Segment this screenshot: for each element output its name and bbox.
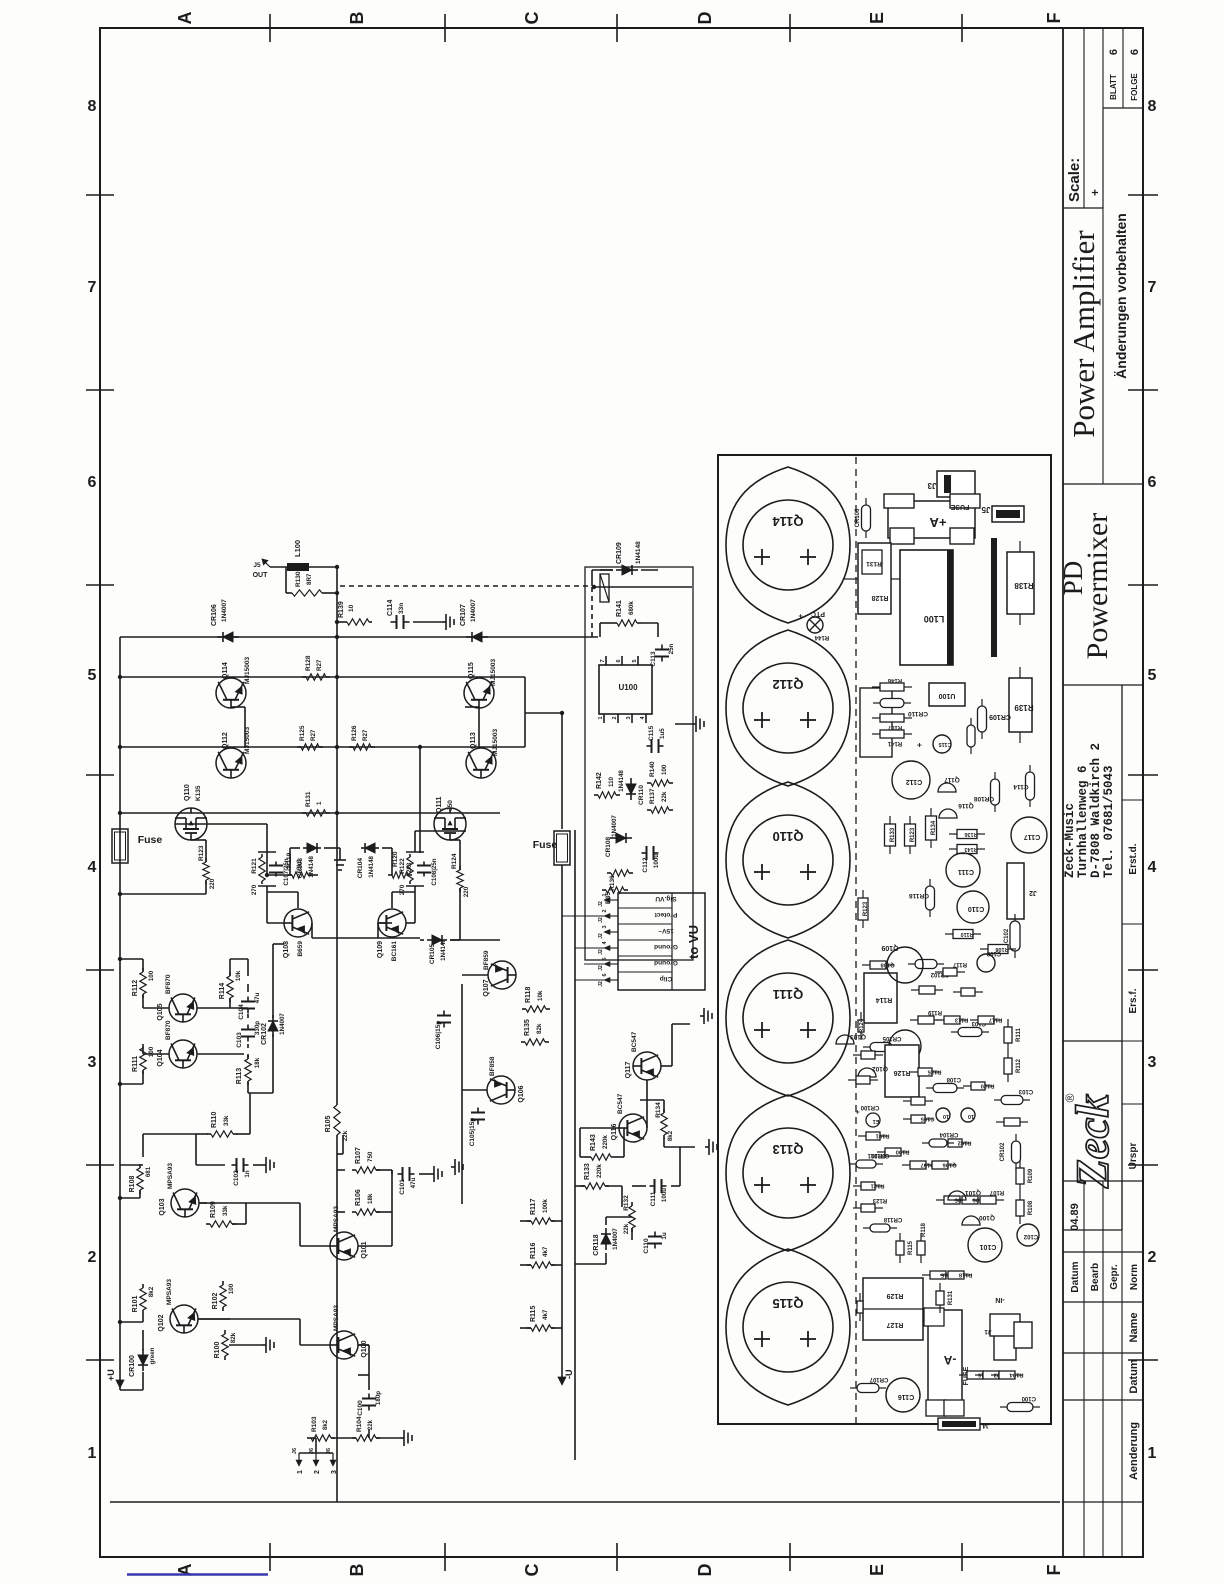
svg-text:22k: 22k <box>623 1223 630 1234</box>
svg-text:J2: J2 <box>598 901 604 907</box>
svg-text:1N4148: 1N4148 <box>440 939 447 961</box>
diode CR102 1N4007 <box>272 1031 274 1037</box>
PCB resistor R146 <box>872 686 880 688</box>
svg-text:Q116: Q116 <box>611 1124 618 1141</box>
clip stage wires <box>646 1080 648 1128</box>
PCB resistor C105 <box>903 1118 911 1120</box>
feedback/output rail <box>336 1135 338 1502</box>
svg-text:R125: R125 <box>927 1069 942 1075</box>
R102 100 <box>222 1307 224 1311</box>
svg-text:Tel. 07681/5043: Tel. 07681/5043 <box>1102 765 1116 878</box>
svg-text:K135: K135 <box>195 785 202 801</box>
svg-text:C: C <box>522 12 542 25</box>
svg-text:C116: C116 <box>898 1393 914 1400</box>
svg-text:A: A <box>175 12 195 25</box>
svg-text:B659: B659 <box>297 941 304 957</box>
PCB sub box <box>860 688 892 757</box>
svg-text:100k: 100k <box>542 1199 549 1213</box>
svg-text:7: 7 <box>1148 279 1157 296</box>
svg-text:J50: J50 <box>447 800 454 811</box>
svg-text:220k: 220k <box>602 1135 609 1149</box>
svg-text:7: 7 <box>88 279 97 296</box>
svg-text:D-7808 Waldkirch 2: D-7808 Waldkirch 2 <box>1089 743 1103 878</box>
svg-text:Q103: Q103 <box>850 1033 866 1040</box>
R100 82k + ground <box>224 1356 226 1360</box>
R117 100k <box>527 1220 531 1222</box>
svg-text:J5: J5 <box>981 505 990 514</box>
ground clip <box>700 1015 704 1017</box>
svg-text:R107: R107 <box>887 724 902 730</box>
svg-text:CR104: CR104 <box>939 1131 958 1137</box>
MOSFET Q110 K135 <box>175 808 207 840</box>
power transistor Q115 MJ15003 <box>464 678 494 708</box>
PCB cap C115 <box>933 735 951 753</box>
svg-text:F: F <box>1044 1565 1064 1576</box>
svg-text:MJ15003: MJ15003 <box>244 657 251 684</box>
svg-text:Turnhallenweg 6: Turnhallenweg 6 <box>1076 765 1090 878</box>
svg-text:6: 6 <box>1129 49 1141 55</box>
PCB resistor R123 <box>909 846 911 854</box>
PCB diode/cap CR108 <box>994 805 996 812</box>
svg-text:C101: C101 <box>980 1243 997 1250</box>
PCB diode/cap CR101 <box>849 1163 856 1165</box>
PCB diode/cap R143c <box>970 747 972 754</box>
PCB resistor R102 <box>940 1142 948 1144</box>
svg-text:CR107: CR107 <box>460 604 467 626</box>
R132 22k <box>631 1228 633 1232</box>
PCB diode/cap CR102 <box>1015 1163 1017 1170</box>
svg-text:R131: R131 <box>948 1290 954 1305</box>
svg-text:R112: R112 <box>132 980 139 996</box>
svg-text:Scale:: Scale: <box>1066 158 1083 202</box>
svg-text:R132: R132 <box>623 1195 630 1211</box>
svg-text:8: 8 <box>88 98 97 115</box>
PCB power transistor Q112 <box>726 630 850 786</box>
PCB cap C104 <box>889 1030 921 1062</box>
PCB J2 <box>1007 863 1024 919</box>
PD Powermixer cell <box>1063 483 1143 485</box>
R141 680k <box>613 622 617 624</box>
svg-text:R125: R125 <box>299 725 306 741</box>
svg-text:J3: J3 <box>927 481 936 490</box>
svg-text:R124: R124 <box>859 1018 865 1033</box>
svg-text:R144: R144 <box>814 634 829 640</box>
U100 IC <box>599 665 652 714</box>
svg-text:C112: C112 <box>906 778 922 785</box>
svg-text:CR108: CR108 <box>605 836 612 857</box>
svg-text:FUSE: FUSE <box>950 503 969 510</box>
svg-text:6: 6 <box>1148 474 1157 491</box>
svg-text:J2: J2 <box>598 933 604 939</box>
svg-text:R131: R131 <box>866 560 882 567</box>
svg-text:C110: C110 <box>643 1238 650 1254</box>
PCB fuse holder +A <box>888 501 975 538</box>
svg-text:C104: C104 <box>238 1004 245 1020</box>
svg-text:Q103: Q103 <box>159 1198 166 1215</box>
svg-text:C115: C115 <box>939 741 952 747</box>
svg-text:MPSA93: MPSA93 <box>333 1305 340 1331</box>
svg-text:J2: J2 <box>598 981 604 987</box>
second stage Q106 BF858 <box>487 1076 515 1104</box>
PCB resistor R125 <box>910 1071 918 1073</box>
svg-text:CR108: CR108 <box>973 795 994 802</box>
svg-text:1N4007: 1N4007 <box>612 1228 619 1250</box>
svg-text:C114: C114 <box>387 600 394 616</box>
PCB diode/cap CR118b <box>863 1227 870 1229</box>
PCB resistor R124 <box>860 1032 862 1040</box>
svg-text:4: 4 <box>1148 859 1157 876</box>
input connector pins 1 2 3 <box>298 1453 300 1466</box>
svg-text:MPSA93: MPSA93 <box>167 1163 174 1189</box>
bias rail wires <box>419 747 421 853</box>
PCB diode/cap C114 <box>1029 800 1031 807</box>
svg-text:CR107: CR107 <box>869 1376 888 1382</box>
Q108 collector wires <box>267 922 284 924</box>
svg-text:R27: R27 <box>362 729 369 741</box>
svg-text:BF859: BF859 <box>483 950 490 970</box>
svg-text:R124: R124 <box>451 853 458 869</box>
svg-text:C108|25n: C108|25n <box>431 858 438 885</box>
svg-text:MJ15003: MJ15003 <box>492 729 499 756</box>
revision table <box>1063 1501 1143 1503</box>
svg-text:Q111: Q111 <box>773 987 803 1002</box>
svg-text:1N4007: 1N4007 <box>611 815 618 837</box>
svg-text:3: 3 <box>331 1470 338 1474</box>
resistor R111 100 <box>142 1070 144 1074</box>
svg-text:6: 6 <box>602 973 608 976</box>
svg-text:R117: R117 <box>989 1017 1003 1023</box>
svg-text:Zeck-Music: Zeck-Music <box>1063 803 1077 878</box>
svg-text:R139: R139 <box>1014 703 1034 712</box>
svg-text:R136: R136 <box>964 831 977 837</box>
connector pins J2 <box>608 979 618 981</box>
svg-text:C102: C102 <box>233 1170 240 1186</box>
svg-text:J2: J2 <box>598 949 604 955</box>
svg-text:Q109: Q109 <box>881 944 898 951</box>
svg-text:CR101: CR101 <box>870 1152 889 1158</box>
PCB resistor R113 <box>936 1019 944 1021</box>
PCB resistor R118b <box>920 1255 922 1263</box>
svg-text:Erst.d.: Erst.d. <box>1128 843 1139 874</box>
PCB resistor R117b <box>935 971 943 973</box>
bias resistor R114 10k <box>229 998 231 1002</box>
R143 220k <box>587 1156 591 1158</box>
svg-text:6: 6 <box>88 474 97 491</box>
PCB resistor R131b <box>939 1305 941 1313</box>
svg-text:D: D <box>695 1564 715 1577</box>
svg-text:R114: R114 <box>876 996 892 1003</box>
svg-text:R111: R111 <box>1016 1027 1022 1041</box>
dashed sense line <box>340 585 592 587</box>
svg-text:BF858: BF858 <box>489 1056 496 1076</box>
svg-text:180p: 180p <box>375 1391 382 1405</box>
MOSFET column R131 <box>120 812 337 814</box>
svg-text:Zeck: Zeck <box>1067 1094 1119 1189</box>
bias cap C103 330p <box>247 1037 249 1042</box>
svg-text:CR102: CR102 <box>261 1023 268 1045</box>
svg-text:8: 8 <box>1148 98 1157 115</box>
source resistor R131 1 <box>302 812 306 814</box>
diode CR105 1N4148 <box>427 939 432 941</box>
svg-text:R121: R121 <box>251 858 258 874</box>
svg-text:CR104: CR104 <box>357 858 364 879</box>
PCB connector J3 <box>937 471 975 497</box>
svg-text:C102: C102 <box>1023 1233 1038 1239</box>
svg-text:Q117: Q117 <box>625 1062 632 1079</box>
svg-text:CR100: CR100 <box>860 1104 879 1110</box>
lower rail tie to -U <box>500 746 525 748</box>
svg-text:Q106: Q106 <box>518 1085 525 1102</box>
Q102 MPSA93 <box>170 1305 198 1333</box>
svg-text:BF870: BF870 <box>165 1020 172 1040</box>
svg-text:R137: R137 <box>649 788 656 804</box>
PCB resistor R115b <box>899 1255 901 1263</box>
svg-text:R118: R118 <box>525 987 532 1003</box>
PCB cap C110 <box>957 891 989 923</box>
ground C102 <box>262 1164 266 1166</box>
svg-text:4k7: 4k7 <box>542 1246 549 1257</box>
svg-text:100u: 100u <box>653 854 660 868</box>
svg-text:Urspr: Urspr <box>1128 1143 1139 1170</box>
svg-text:R146: R146 <box>887 677 902 683</box>
svg-text:Q105: Q105 <box>157 1003 164 1020</box>
ground input <box>400 1437 404 1439</box>
PCB cap C109 <box>977 954 995 972</box>
PCB cap C117 <box>1011 817 1047 853</box>
PCB dashed separator <box>855 455 857 1424</box>
svg-text:E1: E1 <box>873 1118 880 1124</box>
emitter resistor R126 R27 <box>349 746 353 748</box>
VAS R110 33k <box>207 1133 211 1135</box>
svg-text:R140: R140 <box>649 761 656 777</box>
svg-text:100: 100 <box>661 764 668 775</box>
PCB resistor R100 <box>877 1151 885 1153</box>
C106 15p <box>443 1023 445 1028</box>
svg-text:BC161: BC161 <box>391 941 398 962</box>
R115 4k7 <box>527 1327 531 1329</box>
svg-text:R27: R27 <box>316 659 323 671</box>
fuse lower <box>554 831 570 865</box>
diode CR104 1N4148 <box>361 847 365 849</box>
svg-text:82k: 82k <box>230 1332 237 1343</box>
svg-text:J1: J1 <box>984 1328 992 1335</box>
svg-text:1: 1 <box>88 1445 97 1462</box>
svg-text:6: 6 <box>616 659 622 662</box>
Aenderungen vorbehalten cell <box>1102 28 1104 484</box>
PCB diode/cap CR105 <box>863 1046 870 1048</box>
CR108 1N4007 <box>610 837 616 839</box>
ground bias <box>324 847 340 849</box>
PCB resistor R109b <box>1019 1184 1021 1192</box>
PCB cap 10 <box>961 1108 975 1122</box>
PCB diode/cap CR107 <box>850 1387 857 1389</box>
ruler zone numbers top edge <box>86 1359 114 1361</box>
svg-text:®: ® <box>1063 1093 1077 1102</box>
svg-text:Q100: Q100 <box>979 1214 995 1221</box>
C102 1n to ground <box>232 1164 237 1166</box>
svg-text:10: 10 <box>968 1113 974 1119</box>
svg-text:681: 681 <box>145 1166 152 1177</box>
svg-text:10k: 10k <box>235 970 242 981</box>
PCB J1 cluster <box>994 1334 1016 1360</box>
R109 33k <box>206 1223 210 1225</box>
svg-text:-A: -A <box>943 1353 956 1367</box>
CR118 1N4007 <box>605 1244 607 1250</box>
svg-text:220: 220 <box>463 886 470 897</box>
svg-text:R102: R102 <box>212 1293 219 1310</box>
svg-text:R115: R115 <box>908 1240 914 1255</box>
PCB resistor R105 <box>936 1199 944 1201</box>
R136 <box>607 872 611 874</box>
PCB diode/cap CR102 <box>908 963 915 965</box>
svg-text:100: 100 <box>228 1283 235 1294</box>
inner margin line <box>110 1501 1060 1503</box>
svg-text:R100: R100 <box>896 1149 910 1155</box>
svg-text:CR106: CR106 <box>855 508 861 527</box>
svg-text:R134: R134 <box>655 1102 662 1118</box>
svg-text:R111: R111 <box>132 1056 139 1072</box>
PCB cap C112 <box>892 761 930 799</box>
PCB resistor R107b <box>972 1199 980 1201</box>
bias cluster R121 C107 <box>258 885 276 887</box>
svg-text:Q113: Q113 <box>772 1142 803 1157</box>
svg-text:R123: R123 <box>872 1197 887 1203</box>
R105 22k feedback <box>336 1134 338 1136</box>
svg-text:220: 220 <box>209 878 216 889</box>
svg-text:L100: L100 <box>293 540 302 557</box>
svg-text:04.89: 04.89 <box>1069 1203 1081 1231</box>
svg-text:Ground: Ground <box>654 943 678 950</box>
PCB diode/cap C103b <box>994 1099 1001 1101</box>
PCB resistor R118 <box>940 1274 948 1276</box>
R108 681 <box>139 1190 141 1194</box>
svg-text:C106|15p: C106|15p <box>435 1021 442 1050</box>
R137 22k <box>647 809 651 811</box>
svg-text:R108: R108 <box>1028 1200 1034 1215</box>
svg-text:R126: R126 <box>894 1069 911 1076</box>
ground left <box>451 1166 455 1168</box>
PCB power transistor Q113 <box>726 1095 850 1251</box>
PCB diode/cap CR110 <box>873 702 880 704</box>
svg-text:R123: R123 <box>910 827 916 842</box>
svg-text:Fuse: Fuse <box>138 834 163 846</box>
svg-text:CR118: CR118 <box>883 1216 902 1222</box>
PCB cap C102b <box>1017 1224 1039 1246</box>
svg-text:3: 3 <box>626 716 632 719</box>
PCB resistor C107b <box>853 1054 861 1056</box>
svg-text:1: 1 <box>598 716 604 719</box>
rail +U top L-shaped <box>119 637 121 1390</box>
svg-text:CR110: CR110 <box>908 710 928 717</box>
bias cluster R122 C108 <box>406 885 424 887</box>
svg-text:Gepr.: Gepr. <box>1109 1264 1120 1290</box>
svg-text:15V~: 15V~ <box>658 927 674 934</box>
svg-text:R112: R112 <box>1016 1058 1022 1073</box>
PCB diode/cap C102 <box>1014 951 1016 958</box>
input pair Q103 MPSA93 <box>171 1189 199 1217</box>
svg-text:C110: C110 <box>968 905 984 912</box>
svg-text:4: 4 <box>88 859 97 876</box>
svg-text:47u: 47u <box>410 1177 417 1188</box>
PCB diode/cap CR104 <box>922 1142 929 1144</box>
svg-text:E: E <box>867 12 887 24</box>
svg-text:22k: 22k <box>368 1419 374 1430</box>
PCB resistor R123d <box>862 920 864 928</box>
svg-text:R103: R103 <box>311 1416 318 1432</box>
svg-text:R127: R127 <box>887 1321 904 1328</box>
svg-text:R110: R110 <box>961 931 974 937</box>
svg-text:5: 5 <box>1148 667 1157 684</box>
svg-text:Q102: Q102 <box>158 1314 165 1331</box>
bottom row cells Urspr Ers.f. Erst.d. <box>1121 685 1123 1230</box>
svg-text:Q110: Q110 <box>184 784 191 801</box>
C115 1u5 <box>647 745 652 747</box>
PCB diode/cap CR118 <box>929 910 931 917</box>
diode CR106 1N4007 <box>217 636 223 638</box>
svg-text:680k: 680k <box>628 601 635 615</box>
gate resistor R123 220 <box>205 880 207 884</box>
PCB power transistor Q111 <box>726 940 850 1096</box>
svg-text:C117: C117 <box>1024 833 1040 840</box>
bias resistor R113 18k <box>247 1081 249 1085</box>
svg-text:U100: U100 <box>618 683 638 692</box>
R116 4k7 <box>527 1264 531 1266</box>
blue pen mark near lower left corner <box>127 1573 268 1576</box>
OUT terminal J5 <box>262 559 270 567</box>
PCB Q102 Q103 D shapes <box>858 1068 876 1077</box>
svg-text:E: E <box>867 1564 887 1576</box>
MOSFET Q111 J50 <box>434 808 466 840</box>
svg-text:R109: R109 <box>1028 1168 1034 1183</box>
svg-text:Ground: Ground <box>654 959 678 966</box>
svg-text:1N4148: 1N4148 <box>308 855 315 877</box>
svg-text:Datum: Datum <box>1128 1359 1140 1393</box>
svg-text:R106: R106 <box>355 1189 362 1206</box>
C105 15p <box>477 1120 479 1125</box>
PCB resistor R112b <box>1007 1074 1009 1082</box>
svg-text:1n: 1n <box>244 1170 251 1177</box>
PCB resistor R101 <box>858 1135 866 1137</box>
svg-text:FOLGE: FOLGE <box>1130 73 1139 101</box>
svg-text:U100: U100 <box>939 692 956 699</box>
svg-text:1: 1 <box>1148 1445 1157 1462</box>
svg-text:Q111: Q111 <box>436 797 443 813</box>
emitter resistor R125 R27 <box>297 746 301 748</box>
svg-text:3: 3 <box>1148 1054 1157 1071</box>
svg-text:10: 10 <box>348 604 355 612</box>
svg-text:Fuse: Fuse <box>533 839 558 851</box>
svg-text:Q107: Q107 <box>483 979 490 996</box>
C112 100u <box>642 852 647 854</box>
PCB R138 <box>1007 552 1034 614</box>
svg-text:R118: R118 <box>958 1272 972 1278</box>
svg-text:C105: C105 <box>920 1116 935 1122</box>
svg-text:+: + <box>1088 189 1102 196</box>
PCB L100 <box>900 550 953 665</box>
svg-text:4k7: 4k7 <box>542 1309 549 1320</box>
svg-text:CR102: CR102 <box>1000 1142 1006 1161</box>
PCB resistor R119b <box>910 1019 918 1021</box>
svg-text:+: + <box>798 614 805 618</box>
diode CR103 1N4148 <box>303 847 307 849</box>
PCB fuse -A <box>928 1310 962 1410</box>
svg-text:R130: R130 <box>295 571 302 587</box>
svg-text:Q115: Q115 <box>772 1296 803 1311</box>
input diff pair Q101 MPSA93 <box>330 1232 358 1260</box>
svg-text:C111: C111 <box>650 1191 657 1206</box>
svg-text:R102: R102 <box>958 1140 972 1146</box>
PCB resistor R120b <box>953 991 961 993</box>
